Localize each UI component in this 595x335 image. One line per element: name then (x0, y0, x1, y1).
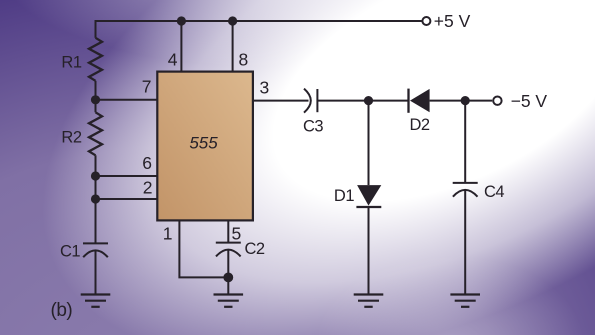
svg-text:555: 555 (189, 133, 218, 152)
wire pin 3 (253, 100, 309, 102)
svg-text:C1: C1 (60, 242, 80, 260)
node D junction dot (top rail / pin4) (177, 16, 186, 25)
svg-text:−5 V: −5 V (511, 91, 548, 111)
node C junction dot (pin2) (91, 194, 100, 203)
ground (D1) (354, 295, 384, 307)
wire C3 to D2 (317, 100, 408, 102)
wire pin 7 (96, 99, 158, 101)
svg-text:+5 V: +5 V (434, 11, 471, 31)
wire pin 1 (179, 221, 228, 278)
ground (C2) (214, 295, 244, 307)
wire node C to C1 (95, 199, 97, 243)
capacitor C4 (453, 183, 478, 197)
svg-text:2: 2 (143, 178, 152, 198)
capacitor C1 (83, 243, 108, 257)
wire C1 to ground (95, 251, 97, 295)
svg-text:C3: C3 (303, 117, 323, 135)
ground (C1) (81, 295, 111, 307)
wire pin 2 (96, 198, 158, 200)
wire pin 4 (180, 21, 182, 72)
wire D1 to ground (368, 207, 370, 295)
wire C4 to ground (464, 190, 466, 295)
svg-text:D1: D1 (334, 187, 354, 205)
wire C2 to ground (227, 250, 229, 295)
node A junction dot (R1/R2/pin7) (91, 95, 100, 104)
wire node A to R2 (95, 100, 97, 113)
svg-text:7: 7 (142, 77, 151, 97)
wire +5V top rail (95, 20, 422, 22)
node F junction dot (pin1/C2/ground) (223, 273, 233, 283)
svg-text:R2: R2 (61, 128, 81, 146)
svg-text:6: 6 (142, 153, 151, 173)
wire D2 to -5V terminal (430, 100, 493, 102)
node G junction dot (C3/D2/D1) (364, 96, 373, 105)
capacitor C3 (304, 89, 317, 113)
IC U1 555 timer body (157, 72, 253, 221)
resistor R1 (89, 38, 102, 81)
node E junction dot (top rail / pin8) (228, 16, 237, 25)
terminal +5V open circle (422, 17, 430, 25)
diode D1 (356, 185, 381, 207)
capacitor C2 (216, 243, 241, 257)
svg-text:1: 1 (163, 224, 172, 244)
wire pin 8 (232, 21, 234, 72)
svg-text:C2: C2 (245, 240, 265, 258)
node H junction dot (D2/C4/-5V) (461, 96, 470, 105)
svg-text:3: 3 (260, 78, 269, 98)
wire node H to C4 (464, 101, 466, 183)
wire R2 to node B (95, 155, 97, 176)
svg-text:C4: C4 (484, 183, 504, 201)
resistor R2 (89, 112, 102, 155)
wire pin 6 (96, 175, 158, 177)
wire node G to D1 (368, 101, 370, 186)
svg-text:5: 5 (232, 224, 241, 244)
wire pin 5 (227, 221, 229, 243)
diode D2 (409, 89, 430, 113)
svg-text:8: 8 (239, 49, 248, 69)
node B junction dot (pin6) (91, 171, 100, 180)
terminal -5V open circle (493, 97, 501, 105)
wire R1 to node A (95, 81, 97, 100)
wire node B to node C (95, 176, 97, 199)
svg-text:D2: D2 (410, 116, 430, 134)
svg-text:R1: R1 (61, 54, 81, 72)
wire left rail to R1 (95, 20, 97, 38)
ground (C4) (450, 295, 480, 307)
svg-text:(b): (b) (51, 300, 73, 321)
svg-text:4: 4 (168, 49, 178, 69)
